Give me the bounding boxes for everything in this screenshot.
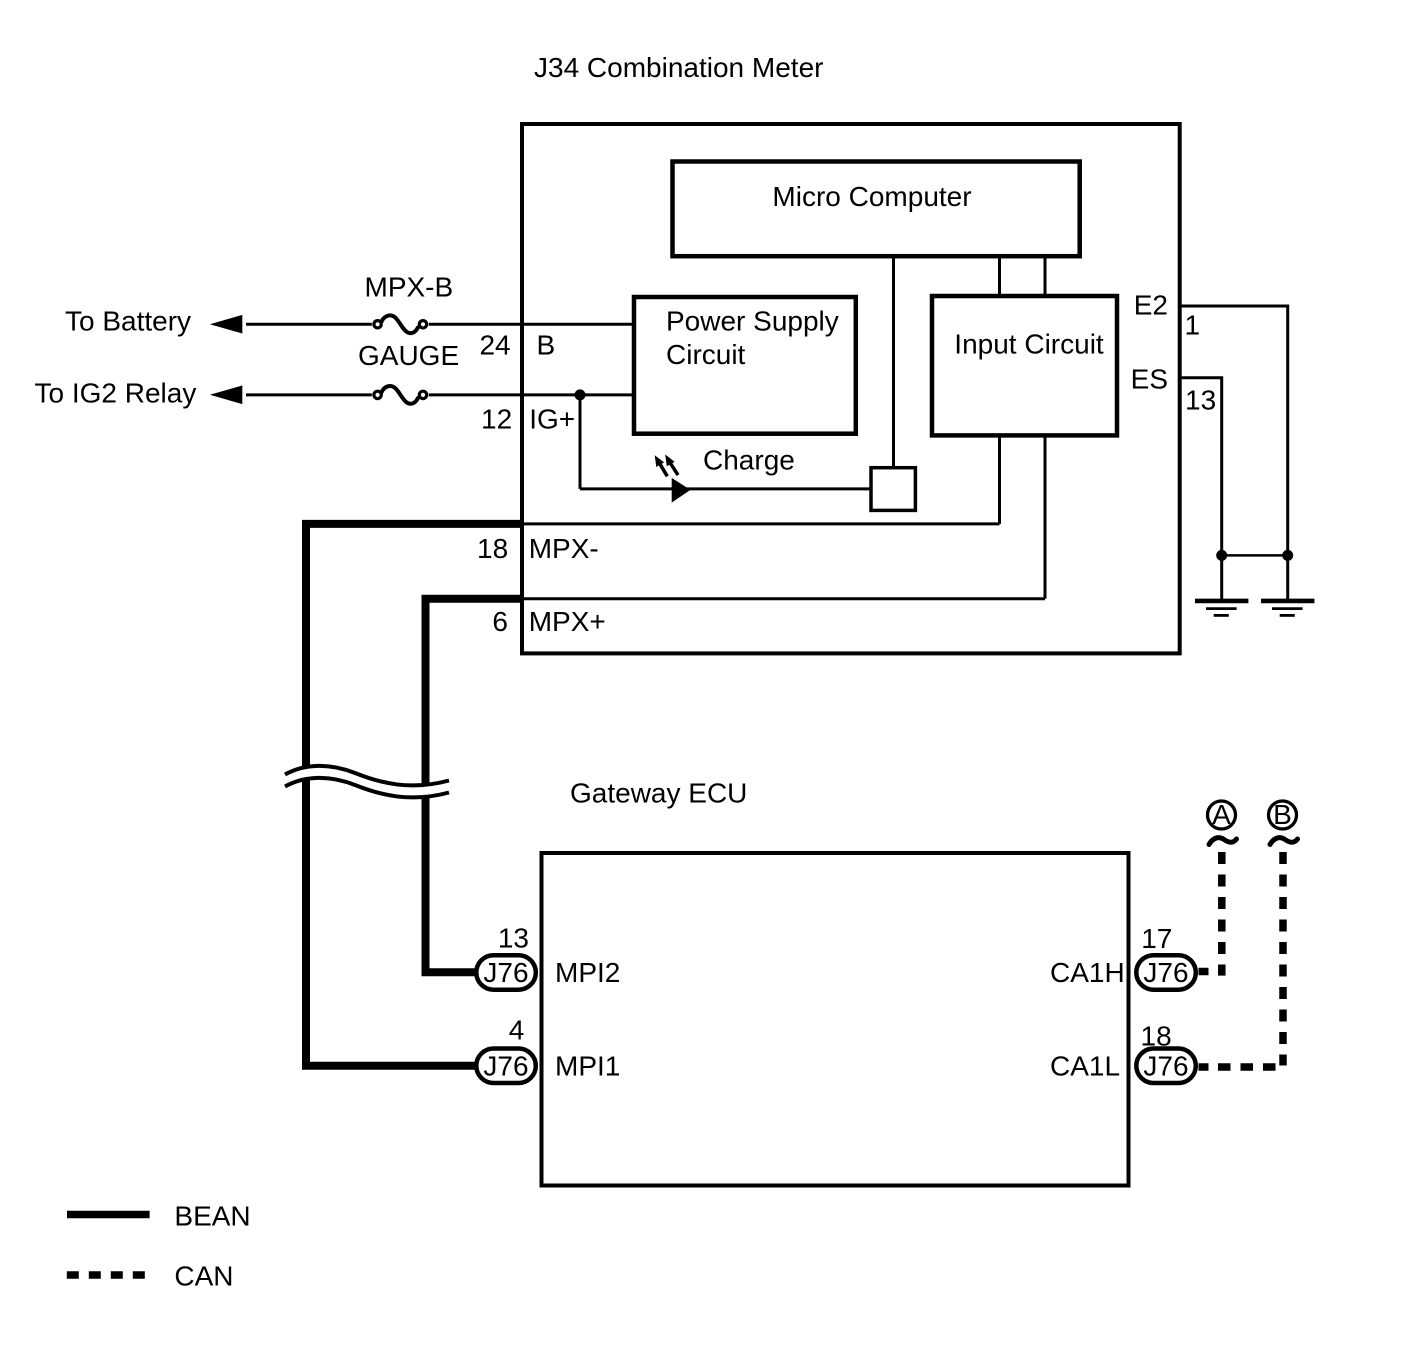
- wire ES to ground: [1180, 378, 1222, 601]
- wire input circuit to MPX+ net: [1044, 435, 1047, 598]
- svg-text:MPI1: MPI1: [555, 1051, 620, 1082]
- svg-text:B: B: [537, 330, 556, 361]
- wire break symbol (wavy): [285, 766, 449, 798]
- wire charge lamp to resistor block: [580, 487, 871, 490]
- dashed CAN wire A to CA1H: [1199, 852, 1222, 976]
- svg-text:J76: J76: [1143, 957, 1188, 988]
- connector J76 at MPI1: [476, 1049, 536, 1084]
- svg-text:J76: J76: [483, 957, 528, 988]
- node A circled: [1208, 799, 1236, 830]
- svg-text:MPI2: MPI2: [555, 957, 620, 988]
- svg-text:B: B: [1273, 799, 1292, 830]
- svg-text:18: 18: [477, 533, 508, 564]
- svg-text:Input Circuit: Input Circuit: [954, 329, 1104, 360]
- svg-text:A: A: [1212, 799, 1231, 830]
- junction node ES ground: [1216, 550, 1227, 561]
- wire MPX+ inside meter (pin 6): [522, 597, 1045, 600]
- connector J76 at MPI2: [476, 955, 536, 990]
- svg-text:13: 13: [1185, 385, 1216, 416]
- resistor block square: [871, 468, 915, 511]
- svg-text:BEAN: BEAN: [174, 1201, 250, 1232]
- arrowhead to battery: [210, 315, 242, 334]
- svg-text:ES: ES: [1131, 364, 1168, 395]
- svg-text:CA1L: CA1L: [1050, 1051, 1120, 1082]
- svg-text:1: 1: [1185, 310, 1201, 341]
- svg-text:To IG2 Relay: To IG2 Relay: [35, 378, 197, 409]
- svg-text:J76: J76: [1143, 1051, 1188, 1082]
- junction node on IG+ wire: [575, 389, 586, 400]
- arrowhead to IG2 relay: [210, 386, 242, 405]
- legend CAN dashed line: [67, 1271, 145, 1279]
- svg-text:4: 4: [509, 1015, 525, 1046]
- power supply circuit box: [634, 297, 856, 434]
- wire B (to battery, pin 24): [246, 323, 634, 326]
- input circuit box: [932, 296, 1117, 435]
- wire micro computer to input circuit (right): [1044, 256, 1047, 296]
- svg-text:J34 Combination Meter: J34 Combination Meter: [534, 52, 823, 83]
- wire input circuit to MPX- net: [998, 435, 1001, 524]
- svg-text:12: 12: [481, 404, 512, 435]
- fuse on IG+ wire: [374, 386, 427, 404]
- svg-text:E2: E2: [1134, 290, 1168, 321]
- continuation squiggle A: [1209, 838, 1237, 845]
- svg-text:IG+: IG+: [529, 404, 575, 435]
- junction node E2 ground: [1282, 550, 1293, 561]
- wire micro computer to input circuit (left): [998, 256, 1001, 296]
- legend BEAN line: [67, 1211, 150, 1219]
- svg-text:Charge: Charge: [703, 445, 795, 476]
- wire IG+ drop to charge lamp: [579, 395, 582, 489]
- thick BEAN wire MPX+ to MPI2: [426, 599, 523, 973]
- LED light arrows: [655, 455, 678, 477]
- thick BEAN wire MPX- to MPI1: [306, 524, 522, 1066]
- continuation squiggle B: [1270, 838, 1298, 845]
- connector J76 at CA1L: [1136, 1049, 1196, 1084]
- svg-text:MPX+: MPX+: [529, 606, 606, 637]
- svg-text:CA1H: CA1H: [1050, 957, 1125, 988]
- svg-text:6: 6: [492, 606, 508, 637]
- wire IG+ (to IG2 relay, pin 12): [246, 393, 634, 396]
- svg-text:MPX-B: MPX-B: [365, 272, 454, 303]
- svg-text:CAN: CAN: [174, 1261, 233, 1292]
- wire MPX- inside meter (pin 18): [522, 522, 1000, 525]
- ground symbol left: [1195, 601, 1248, 616]
- charge indicator LED diode arrow: [672, 478, 691, 503]
- svg-text:GAUGE: GAUGE: [358, 340, 459, 371]
- wire E2 to ground: [1180, 306, 1288, 601]
- svg-text:MPX-: MPX-: [529, 533, 599, 564]
- svg-text:Gateway ECU: Gateway ECU: [570, 778, 747, 809]
- wire micro computer to resistor block: [892, 256, 895, 468]
- ground symbol right: [1261, 601, 1314, 616]
- svg-text:13: 13: [498, 923, 529, 954]
- svg-text:J76: J76: [483, 1051, 528, 1082]
- svg-text:To Battery: To Battery: [65, 306, 191, 337]
- combination meter box J34: [522, 124, 1180, 653]
- svg-text:Power Supply: Power Supply: [666, 305, 839, 336]
- micro computer box: [673, 162, 1080, 257]
- svg-text:Circuit: Circuit: [666, 339, 746, 370]
- dashed CAN wire B to CA1L: [1199, 852, 1284, 1067]
- svg-text:17: 17: [1141, 923, 1172, 954]
- svg-text:24: 24: [479, 330, 510, 361]
- connector J76 at CA1H: [1136, 955, 1196, 990]
- gateway ECU box: [542, 853, 1129, 1186]
- wire between ground nodes: [1222, 554, 1288, 557]
- fuse GAUGE (MPX-B) on B wire: [374, 315, 427, 333]
- svg-text:Micro Computer: Micro Computer: [772, 181, 971, 212]
- node B circled: [1269, 799, 1297, 830]
